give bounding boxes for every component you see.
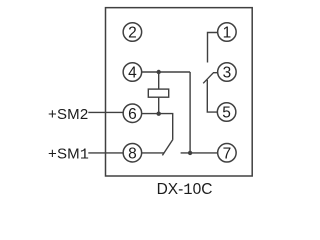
svg-text:7: 7 [223,145,232,162]
coil K [148,89,168,97]
junction dot A (coil top node) [157,70,161,74]
svg-text:5: 5 [222,105,231,122]
svg-text:1: 1 [223,25,232,42]
wire riser pin4-net down to pin 7 node [189,72,191,153]
junction dot B (coil bottom node) [157,112,161,116]
wire pin 6 to armature corner [142,114,173,140]
svg-text:2: 2 [128,25,137,42]
wire +SM2 to pin 6 [88,111,123,113]
svg-text:4: 4 [128,65,137,82]
terminal 6 [123,104,142,123]
terminal 3 [218,63,237,82]
terminal 2 [123,23,142,42]
svg-text:+SM1: +SM1 [48,145,89,163]
terminal 8 [123,143,142,162]
wire pin 8 stub [142,152,165,154]
svg-text:DX-10C: DX-10C [157,181,213,199]
wire coil top lead [158,72,160,89]
junction dot C (pin 7 node) [188,151,192,155]
wire pin 4 to vertical riser [142,71,191,73]
contact blade lower (armature to pin 8) [162,139,173,155]
wire pin 1 fixed contact lead [208,33,218,63]
svg-text:8: 8 [128,145,137,162]
relay case outline [106,8,253,176]
svg-text:6: 6 [128,106,137,123]
terminal 4 [123,63,142,82]
wire pin 5 lead [207,80,217,112]
wire pin 3 stub [213,72,218,74]
terminal 5 [217,103,236,122]
wire pin 7 fixed contact [181,152,218,154]
svg-text:+SM2: +SM2 [48,106,88,123]
wire coil bottom lead [158,97,160,114]
contact blade upper (pin 3 arm) [203,73,213,84]
terminal 7 [218,144,237,163]
svg-text:3: 3 [223,65,232,82]
wire +SM1 to pin 8 [88,152,123,154]
terminal 1 [218,23,237,42]
